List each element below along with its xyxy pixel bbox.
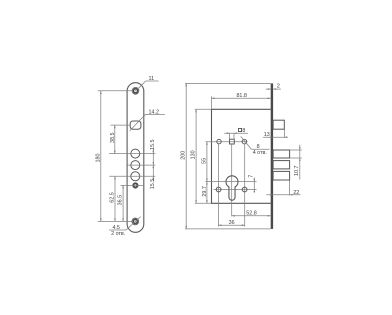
svg-text:8: 8 — [242, 128, 245, 134]
spindle cutout 14.2 — [130, 121, 141, 129]
deadbolt prong 2 — [273, 161, 290, 169]
lock case outline — [212, 109, 271, 203]
svg-text:130: 130 — [190, 150, 196, 159]
svg-text:2: 2 — [277, 84, 280, 90]
leader 8 / 4 otv — [241, 136, 270, 149]
svg-text:200: 200 — [180, 151, 186, 160]
svg-text:11: 11 — [148, 76, 154, 82]
svg-text:36: 36 — [229, 220, 235, 226]
svg-text:180: 180 — [95, 154, 101, 163]
vertical centerline left holes — [217, 144, 219, 227]
case left edge top extension (81.8) — [211, 96, 213, 109]
dim 55 / 29.7 line — [206, 142, 208, 204]
cross row centerline — [205, 141, 247, 143]
bottom screw hole — [132, 218, 139, 225]
extension line circle1 — [109, 153, 155, 155]
svg-text:81.8: 81.8 — [236, 93, 247, 99]
svg-text:13: 13 — [264, 132, 270, 138]
hole circle 1 — [131, 149, 140, 158]
dim 15.5 double line right — [152, 149, 154, 181]
extension line cutout center — [111, 124, 131, 126]
extension line bar bottom (200) — [185, 228, 271, 230]
svg-text:55: 55 — [202, 158, 208, 164]
top screw hole — [132, 87, 139, 94]
deadbolt prong 3 — [273, 171, 290, 180]
leader 4.5 / 2 otv — [109, 217, 141, 230]
dim 10.7 — [290, 145, 302, 180]
extension line bottom hole — [98, 220, 133, 222]
hole circle 2 — [131, 161, 140, 170]
svg-text:62.5: 62.5 — [110, 192, 116, 203]
leader 14.2 — [130, 114, 165, 130]
dim 130 line — [195, 109, 197, 203]
svg-text:52.8: 52.8 — [246, 211, 257, 217]
faceplate plate outline — [127, 83, 144, 233]
cylinder horizontal centerline — [205, 181, 256, 183]
extension line top hole — [98, 90, 133, 92]
dim 13 — [263, 136, 288, 138]
extension line bar top (200) — [185, 82, 271, 84]
dim 62.5 line — [114, 176, 116, 221]
hole circle 3 — [131, 172, 140, 181]
dim square 8 extensions — [229, 133, 231, 140]
extension line knurled hole — [121, 184, 144, 186]
extension line circle3 — [109, 175, 155, 177]
dim 36.5 line — [122, 185, 124, 221]
dim 2 — [266, 88, 281, 90]
svg-text:38.5: 38.5 — [110, 132, 116, 143]
lower holes horizontal centerline — [214, 189, 257, 191]
label square8 symbol — [239, 128, 242, 131]
svg-text:15.5: 15.5 — [150, 140, 156, 151]
deadbolt prong 1 — [273, 150, 290, 158]
svg-text:4 отв.: 4 отв. — [253, 150, 267, 156]
svg-text:36.5: 36.5 — [118, 195, 124, 206]
leader 11 — [138, 81, 159, 89]
dim 7 line — [253, 178, 255, 193]
svg-text:10.7: 10.7 — [294, 166, 300, 177]
square spindle hole — [230, 139, 235, 144]
case top edge extension — [195, 108, 212, 110]
small knurled hole — [133, 183, 139, 189]
svg-text:22: 22 — [293, 190, 299, 196]
dim 200 line — [185, 83, 187, 229]
svg-text:14.2: 14.2 — [149, 110, 160, 116]
cross row left hole — [217, 139, 221, 143]
vertical centerline cylinder — [231, 144, 233, 216]
dim 22 — [266, 181, 300, 196]
cross row right hole — [242, 139, 247, 144]
cylinder right screw hole — [242, 187, 247, 192]
dim 180 line — [100, 91, 102, 222]
dim 36 — [218, 224, 244, 226]
dim 81.8 line — [212, 97, 271, 99]
faceplate edge bar — [271, 83, 273, 229]
extension line circle2 — [128, 164, 156, 166]
vertical centerline right holes — [244, 144, 246, 227]
dim square 8 line — [224, 132, 248, 134]
svg-text:15.5: 15.5 — [150, 179, 156, 190]
svg-text:2 отв.: 2 отв. — [111, 231, 125, 237]
svg-text:29.7: 29.7 — [202, 186, 208, 197]
euro cylinder profile — [226, 176, 238, 200]
dim 52.8 — [232, 215, 271, 217]
svg-text:7: 7 — [248, 175, 254, 178]
cylinder left screw hole — [216, 187, 221, 192]
latch bolt — [273, 120, 284, 129]
case bottom edge extension — [195, 202, 212, 204]
dim 38.5 line — [114, 125, 116, 154]
